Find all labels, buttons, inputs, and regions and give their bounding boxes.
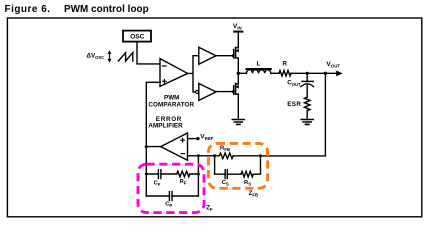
resistor RF (177, 171, 190, 177)
Zfb feedback box (orange dashed) (208, 143, 267, 188)
svg-text:COUT: COUT (287, 80, 301, 88)
wire CS to RS (227, 173, 241, 175)
node EA output (145, 145, 148, 148)
svg-text:ΔVOSC: ΔVOSC (87, 53, 105, 60)
svg-text:PWM: PWM (164, 94, 179, 101)
wire Vin to Q1 drain (236, 32, 239, 48)
Vout arrowhead (336, 71, 342, 76)
node Q1 gate (232, 54, 235, 57)
wire EA output to comparator plus (146, 82, 160, 196)
Q1 arrow (236, 49, 239, 52)
node Zf tap (197, 154, 200, 157)
wire bottom driver to low-side gate (216, 91, 233, 93)
svg-text:COMPARATOR: COMPARATOR (148, 102, 194, 109)
wire EA inverting input to FB node (188, 155, 220, 157)
driver buffer bottom (inverting) (199, 84, 216, 101)
wire R to Vout arrow (291, 72, 336, 74)
wire inductor to R (271, 72, 279, 74)
svg-text:ZF: ZF (206, 204, 213, 211)
Zf compensation box (magenta dashed) (138, 164, 204, 212)
svg-text:AMPLIFIER: AMPLIFIER (148, 122, 183, 129)
resistor RFB (219, 153, 233, 159)
Q2 arrow (236, 85, 239, 88)
transistor Q2 low-side MOSFET (235, 84, 237, 95)
svg-text:L: L (257, 61, 261, 68)
Zf top branch: wire (146, 173, 198, 175)
delta Vosc double arrow (109, 53, 111, 61)
node Q2 gate (232, 90, 235, 93)
wire Zf right leg (197, 156, 199, 196)
wire comparator output to driver split (188, 56, 199, 92)
node Zf top right (197, 173, 200, 176)
comparator minus sign (162, 65, 166, 67)
node Zfb left (213, 154, 216, 157)
node switch (237, 72, 240, 75)
OSC box (123, 31, 151, 42)
feedback wire Vout down to Zfb (261, 73, 326, 156)
svg-text:CP: CP (165, 202, 172, 208)
svg-text:RF: RF (180, 179, 187, 185)
inductor L (246, 70, 270, 74)
error amplifier U2 (161, 133, 188, 160)
node Vref terminal (196, 137, 199, 140)
inverter bubble (196, 90, 199, 93)
resistor R (279, 71, 291, 77)
Zfb left leg (215, 156, 226, 174)
svg-text:ZFB: ZFB (249, 190, 258, 197)
wire switch node to inductor (238, 72, 246, 74)
node Zfb right (259, 154, 262, 157)
wire Cout branch (306, 73, 308, 81)
wire OSC to comparator minus input (137, 42, 160, 64)
node Vout (324, 72, 327, 75)
delta Vosc arrowheads (108, 50, 112, 62)
svg-text:RS: RS (244, 180, 251, 186)
capacitor CS (225, 170, 227, 179)
transistor Q1 high-side MOSFET (235, 47, 237, 58)
figure frame (7, 18, 421, 217)
node Cout tap (306, 72, 309, 75)
capacitor CF (158, 170, 161, 179)
comparator plus sign (163, 80, 167, 84)
junction dots (145, 54, 327, 175)
EA plus sign (181, 138, 185, 142)
Vin supply bar (234, 31, 242, 33)
capacitor Cout (302, 80, 313, 82)
wire RFB to feedback node (233, 155, 260, 157)
svg-text:CF: CF (154, 180, 161, 186)
EA minus sign (181, 153, 185, 155)
wire switch node to Q2 drain (236, 73, 239, 84)
capacitor CP (169, 192, 172, 201)
svg-text:VIN: VIN (233, 23, 242, 31)
svg-text:Figure 6.: Figure 6. (5, 4, 51, 15)
node Zf top left (145, 173, 148, 176)
svg-text:ESR: ESR (287, 101, 301, 108)
ground under Q2 (232, 120, 244, 125)
svg-text:VOUT: VOUT (326, 61, 340, 69)
Zfb right leg (253, 156, 260, 174)
svg-text:RFB: RFB (220, 145, 230, 151)
resistor RS (241, 171, 253, 177)
svg-text:CS: CS (222, 180, 229, 186)
driver buffer top (199, 47, 216, 64)
Zf bottom branch: wire (146, 195, 198, 197)
svg-text:R: R (282, 61, 287, 68)
svg-text:PWM control loop: PWM control loop (64, 4, 149, 15)
svg-text:OSC: OSC (130, 34, 145, 41)
wire ESR to ground (306, 111, 308, 120)
wire Vref (188, 138, 198, 140)
PWM comparator U1 (160, 59, 188, 87)
sawtooth waveform symbol (118, 53, 132, 61)
wire top driver to high-side gate (216, 55, 233, 57)
svg-text:VREF: VREF (200, 134, 214, 142)
ground under ESR (301, 120, 313, 125)
resistor ESR (304, 97, 310, 110)
